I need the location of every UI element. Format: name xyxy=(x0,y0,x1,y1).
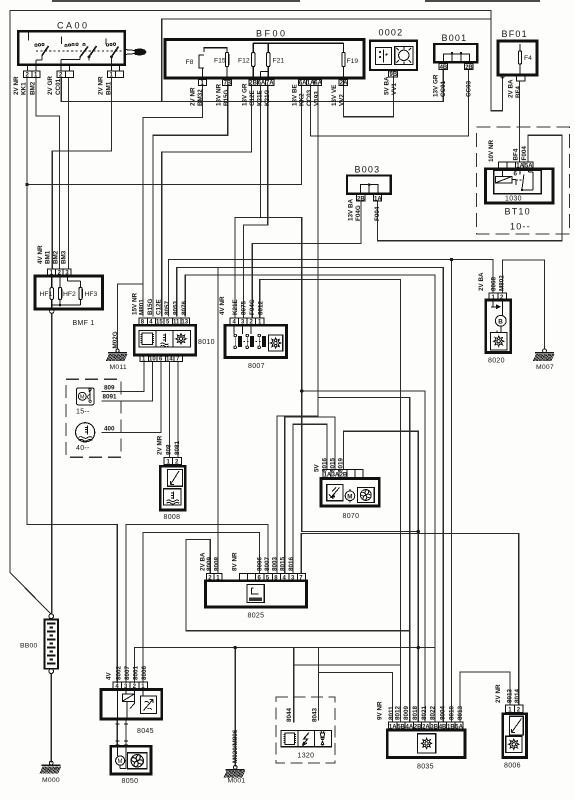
svg-text:CC03: CC03 xyxy=(466,80,473,97)
svg-text:K21E: K21E xyxy=(257,90,264,106)
svg-text:13V BE: 13V BE xyxy=(292,84,299,106)
svg-text:2V BA: 2V BA xyxy=(508,79,515,98)
svg-text:HF3: HF3 xyxy=(85,291,98,298)
svg-text:VV1: VV1 xyxy=(391,83,398,95)
svg-text:M000: M000 xyxy=(42,777,60,784)
svg-text:8008: 8008 xyxy=(214,556,221,571)
svg-text:F19: F19 xyxy=(347,58,359,65)
svg-text:8015: 8015 xyxy=(280,556,287,571)
svg-text:10V NR: 10V NR xyxy=(488,139,495,162)
svg-text:10: 10 xyxy=(149,357,156,363)
svg-text:5V: 5V xyxy=(314,463,321,472)
svg-text:2A: 2A xyxy=(340,81,348,87)
svg-text:BF00: BF00 xyxy=(256,29,288,39)
svg-text:7B: 7B xyxy=(224,81,232,87)
svg-text:M02G: M02G xyxy=(112,331,119,348)
svg-text:F4: F4 xyxy=(524,55,532,62)
svg-text:CC01: CC01 xyxy=(55,78,62,95)
svg-text:2V NR: 2V NR xyxy=(190,87,197,106)
svg-text:F21: F21 xyxy=(273,58,285,65)
svg-text:2B: 2B xyxy=(465,65,473,71)
svg-text:HF2: HF2 xyxy=(63,291,76,298)
svg-text:BM1: BM1 xyxy=(106,81,113,95)
svg-text:8010: 8010 xyxy=(198,339,215,346)
svg-text:8009: 8009 xyxy=(403,705,410,720)
svg-text:BF4: BF4 xyxy=(513,148,520,160)
svg-text:1A: 1A xyxy=(374,196,382,202)
svg-text:10--: 10-- xyxy=(510,222,531,232)
svg-text:9V NR: 9V NR xyxy=(377,701,384,720)
svg-text:2V NR: 2V NR xyxy=(98,76,105,95)
svg-text:BM2: BM2 xyxy=(53,250,60,264)
svg-text:15--: 15-- xyxy=(76,409,90,416)
svg-text:8070: 8070 xyxy=(343,513,360,520)
svg-text:M801: M801 xyxy=(139,299,146,315)
svg-text:BT10: BT10 xyxy=(505,207,531,217)
svg-text:2B: 2B xyxy=(357,196,365,202)
svg-text:F004: F004 xyxy=(521,146,528,161)
svg-text:F04G: F04G xyxy=(355,205,362,221)
svg-text:CA00: CA00 xyxy=(57,21,90,31)
svg-text:8015: 8015 xyxy=(330,457,337,472)
svg-text:9B: 9B xyxy=(390,72,398,78)
svg-text:8018: 8018 xyxy=(412,705,419,720)
svg-text:6A: 6A xyxy=(314,81,322,87)
svg-text:2V MR: 2V MR xyxy=(157,435,164,455)
svg-text:8V NR: 8V NR xyxy=(232,552,239,571)
svg-text:2V BA: 2V BA xyxy=(478,272,485,291)
svg-text:M: M xyxy=(80,395,85,401)
svg-text:8002: 8002 xyxy=(115,665,122,680)
svg-text:8016: 8016 xyxy=(288,556,295,571)
svg-text:8004: 8004 xyxy=(440,705,447,720)
svg-text:F8: F8 xyxy=(186,59,194,66)
svg-text:2V NR: 2V NR xyxy=(13,76,20,95)
svg-text:M007: M007 xyxy=(536,364,554,371)
svg-text:6: 6 xyxy=(514,171,518,178)
svg-text:B: B xyxy=(498,318,503,325)
svg-text:CC01: CC01 xyxy=(440,80,447,97)
svg-text:40--: 40-- xyxy=(76,445,90,452)
svg-text:13V BA: 13V BA xyxy=(348,198,355,221)
svg-text:BM3: BM3 xyxy=(61,250,68,264)
svg-text:5V BA: 5V BA xyxy=(384,76,391,95)
svg-text:8076: 8076 xyxy=(181,300,188,315)
svg-text:8045: 8045 xyxy=(137,728,154,735)
svg-text:C12E: C12E xyxy=(249,90,256,106)
svg-text:8035: 8035 xyxy=(417,764,434,771)
svg-text:M: M xyxy=(118,759,123,765)
svg-text:8010: 8010 xyxy=(449,705,456,720)
svg-text:8012: 8012 xyxy=(395,705,402,720)
svg-text:809: 809 xyxy=(104,385,115,392)
svg-text:8008: 8008 xyxy=(164,514,181,521)
svg-text:1030: 1030 xyxy=(505,196,522,203)
svg-text:15V NR: 15V NR xyxy=(132,292,139,315)
svg-text:14: 14 xyxy=(166,357,173,363)
svg-text:4V NR: 4V NR xyxy=(37,245,44,264)
svg-text:8006: 8006 xyxy=(257,556,264,571)
svg-text:4B: 4B xyxy=(440,65,448,71)
svg-text:8007: 8007 xyxy=(248,363,265,370)
svg-text:8014: 8014 xyxy=(514,688,521,703)
svg-text:F004: F004 xyxy=(374,206,381,221)
svg-text:BF4: BF4 xyxy=(515,86,522,98)
svg-text:B003: B003 xyxy=(355,165,381,175)
svg-text:8007: 8007 xyxy=(264,556,271,571)
svg-text:13V VE: 13V VE xyxy=(331,85,338,106)
svg-text:808: 808 xyxy=(166,444,173,455)
svg-text:BF01: BF01 xyxy=(502,29,528,39)
svg-text:1320: 1320 xyxy=(298,753,315,760)
svg-text:2V NR: 2V NR xyxy=(495,684,502,703)
svg-text:M011: M011 xyxy=(110,364,127,371)
svg-text:K21G: K21G xyxy=(264,89,271,106)
svg-text:8003: 8003 xyxy=(272,556,279,571)
svg-text:8019: 8019 xyxy=(338,457,345,472)
svg-text:8050: 8050 xyxy=(122,778,139,785)
svg-text:F12: F12 xyxy=(238,58,250,65)
svg-text:8007: 8007 xyxy=(124,665,131,680)
svg-text:BB00: BB00 xyxy=(20,643,37,650)
svg-text:KK1: KK1 xyxy=(21,82,28,95)
svg-text:400: 400 xyxy=(104,426,115,433)
svg-text:7A: 7A xyxy=(266,81,274,87)
svg-text:M020/M806: M020/M806 xyxy=(232,729,239,763)
svg-text:BM32: BM32 xyxy=(197,89,204,106)
svg-text:2V GR: 2V GR xyxy=(47,76,54,95)
svg-text:8075: 8075 xyxy=(241,300,248,315)
svg-text:8044: 8044 xyxy=(286,707,293,722)
svg-text:F15: F15 xyxy=(214,58,226,65)
svg-text:B15G: B15G xyxy=(223,89,230,106)
svg-text:8068: 8068 xyxy=(491,276,498,291)
svg-text:BM2: BM2 xyxy=(30,81,37,95)
svg-text:KK2: KK2 xyxy=(299,93,306,106)
svg-text:8057: 8057 xyxy=(164,300,171,315)
svg-text:13V GR: 13V GR xyxy=(242,83,249,106)
svg-text:8013: 8013 xyxy=(457,705,464,720)
svg-text:8006: 8006 xyxy=(141,665,148,680)
svg-text:8006: 8006 xyxy=(504,763,521,770)
svg-text:8012: 8012 xyxy=(258,300,265,315)
svg-text:8091: 8091 xyxy=(103,394,118,401)
svg-text:8001: 8001 xyxy=(132,665,139,680)
svg-text:K21E: K21E xyxy=(232,299,239,315)
svg-text:8053: 8053 xyxy=(173,300,180,315)
svg-text:8022: 8022 xyxy=(430,705,437,720)
svg-text:2B: 2B xyxy=(249,81,257,87)
svg-text:M001: M001 xyxy=(228,778,246,785)
svg-text:8081: 8081 xyxy=(174,440,181,455)
svg-text:6A: 6A xyxy=(258,81,266,87)
svg-text:C12E: C12E xyxy=(156,299,163,315)
svg-text:VV2: VV2 xyxy=(339,94,346,106)
svg-text:0002: 0002 xyxy=(379,28,404,38)
svg-text:4V: 4V xyxy=(106,671,113,680)
svg-text:8025: 8025 xyxy=(248,613,265,620)
svg-text:CC03: CC03 xyxy=(306,89,313,106)
svg-text:M802: M802 xyxy=(499,275,506,291)
svg-text:BM1: BM1 xyxy=(45,250,52,264)
svg-text:4V NR: 4V NR xyxy=(219,296,226,315)
svg-text:B15G: B15G xyxy=(147,298,154,315)
svg-text:BMF 1: BMF 1 xyxy=(73,320,95,327)
svg-text:F04G: F04G xyxy=(249,299,256,315)
svg-text:8043: 8043 xyxy=(311,707,318,722)
svg-text:M: M xyxy=(347,493,352,500)
svg-text:V193: V193 xyxy=(314,91,321,106)
svg-text:8009: 8009 xyxy=(206,556,213,571)
svg-text:8020: 8020 xyxy=(488,358,505,365)
svg-text:8016: 8016 xyxy=(322,457,329,472)
svg-text:B001: B001 xyxy=(442,33,468,43)
svg-text:8021: 8021 xyxy=(421,705,428,720)
svg-text:8013: 8013 xyxy=(507,688,514,703)
svg-text:13V GR: 13V GR xyxy=(433,74,440,97)
svg-text:13V NR: 13V NR xyxy=(216,83,223,106)
